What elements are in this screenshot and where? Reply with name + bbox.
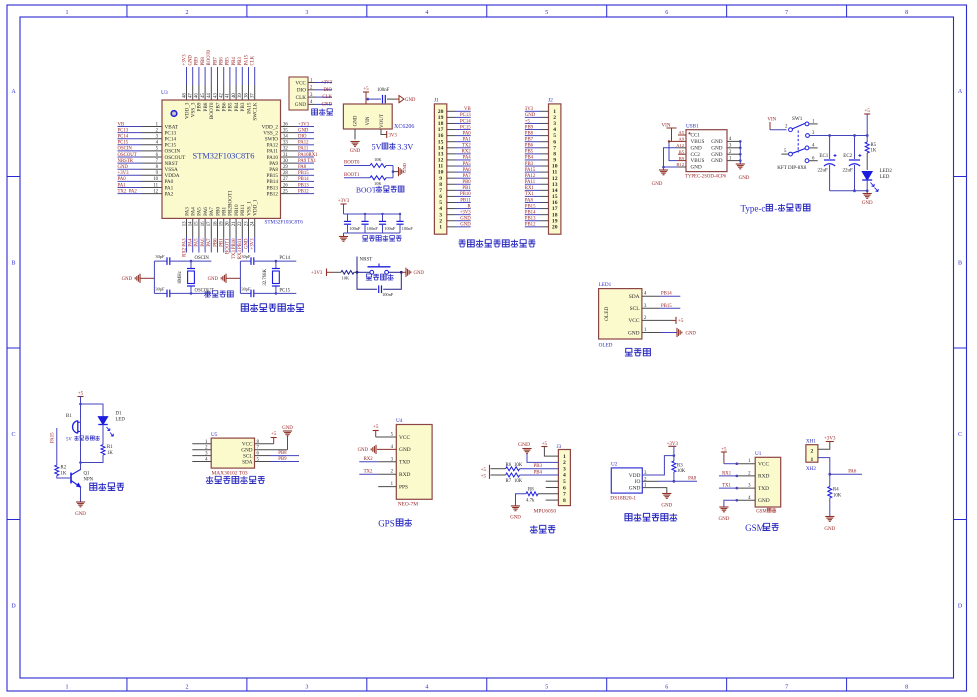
svg-text:GND: GND [75,512,86,517]
caption display [625,348,633,356]
svg-text:5: 5 [545,10,548,16]
svg-text:8: 8 [563,498,566,504]
svg-text:GND: GND [686,331,697,336]
svg-text:Type-c: Type-c [741,204,766,214]
svg-text:Q1: Q1 [84,472,90,477]
svg-text:TX3 PB10: TX3 PB10 [232,238,237,259]
svg-text:PB15: PB15 [525,204,536,209]
svg-text:PB13: PB13 [266,185,278,191]
caption crystal circuit [204,291,210,298]
svg-text:PB6: PB6 [222,102,228,111]
svg-text:VIN: VIN [767,118,776,123]
svg-text:PB0: PB0 [215,207,221,216]
mcu pin 44 BOOT0 wire/net BOOT0 [210,67,212,85]
gnd of power circuit [866,191,868,193]
resistor R4 10K [829,474,831,486]
svg-text:GND: GND [691,165,702,171]
mcu U3 body [162,100,281,218]
svg-text:SWIO: SWIO [265,137,279,143]
gsm gnd [724,500,737,507]
svg-text:GND: GND [525,113,536,118]
svg-text:10K: 10K [514,479,523,484]
svg-text:VCC: VCC [628,318,639,324]
svg-text:7: 7 [563,492,566,498]
mcu pin 35 VSS_2 wire/net GND [281,132,299,134]
gsm U1 body [755,457,781,507]
svg-text:SDA: SDA [242,459,253,465]
svg-text:1: 1 [66,685,69,691]
svg-text:DIO: DIO [323,88,332,93]
svg-text:33: 33 [283,141,288,146]
svg-text:10K: 10K [374,157,382,162]
svg-text:CC1: CC1 [691,133,701,139]
svg-text:PC15: PC15 [279,288,290,293]
sensor left pin 4 [192,461,211,463]
svg-text:BOOT0: BOOT0 [209,102,215,119]
svg-text:R7: R7 [506,479,512,484]
svg-text:NPN: NPN [84,478,94,483]
svg-text:100nF: 100nF [382,292,394,297]
mcu pin 39 PB3 wire/net PB3 [241,67,243,85]
svg-text:PB1: PB1 [462,186,471,191]
svg-text:PB6: PB6 [525,144,534,149]
sensor left pin 1 [192,443,211,445]
svg-text:VSS_3: VSS_3 [191,102,197,117]
node under 3v3 [673,454,676,457]
svg-text:4: 4 [563,473,566,479]
svg-text:PC14: PC14 [118,135,129,140]
svg-text:-: - [774,204,777,214]
svg-text:3V3: 3V3 [525,107,534,112]
svg-text:R1: R1 [107,445,113,450]
svg-text:PC14: PC14 [460,119,471,124]
mcu pin 32 PA11 wire/net PA11 [281,150,299,152]
svg-text:PC15: PC15 [460,125,471,130]
svg-text:+3V3: +3V3 [460,210,472,215]
svg-text:D: D [958,604,963,610]
svg-text:47: 47 [189,93,194,98]
svg-text:D1: D1 [116,412,122,417]
svg-text:VOUT: VOUT [380,114,385,128]
svg-text:DIO: DIO [297,88,306,94]
svg-text:VIN: VIN [366,116,371,125]
gps RXD net TX2 [378,473,396,475]
svg-text:CLK: CLK [251,55,256,65]
capacitor 30pF bottom [240,292,251,294]
svg-text:7: 7 [785,10,788,16]
regulator U6 XC6206 body [343,104,392,129]
svg-text:OSCOUT: OSCOUT [118,153,137,158]
svg-text:EC1: EC1 [819,154,828,159]
svg-text:PB15: PB15 [266,173,278,179]
svg-text:PB13: PB13 [525,217,536,222]
svg-text:45: 45 [201,93,206,98]
svg-text:PB1: PB1 [220,238,225,247]
svg-text:VCC: VCC [399,435,410,441]
svg-text:GND: GND [652,182,663,187]
svg-text:39: 39 [238,93,243,98]
svg-text:GND: GND [405,98,416,103]
svg-text:8MHz: 8MHz [178,271,183,283]
svg-text:30pF: 30pF [241,254,251,259]
svg-text:30pF: 30pF [241,287,251,292]
svg-text:36: 36 [283,122,288,127]
svg-text:C: C [958,432,962,438]
svg-text:PA12: PA12 [525,174,536,179]
mcu pin 7 NRST wire/net NRSTR [118,162,142,164]
usb gnd jumper wire [664,148,679,167]
svg-text:PA9 TX1: PA9 TX1 [298,159,317,164]
svg-text:DS18B20-1: DS18B20-1 [610,496,636,502]
svg-text:PB14: PB14 [525,210,536,215]
svg-text:PA5: PA5 [463,162,472,167]
mcu pin 2 PC13 wire/net PC13 [118,132,142,134]
caption temperature module [625,514,632,521]
svg-text:GND: GND [758,498,770,504]
svg-text:10K: 10K [342,276,350,281]
svg-text:+3V3: +3V3 [311,271,323,276]
temp GND wire [642,488,667,494]
svg-text:GND: GND [460,223,471,228]
mcu pin 29 PA8 wire/net PA8 [281,168,299,170]
svg-text:GND: GND [510,516,521,521]
svg-text:PB11: PB11 [240,204,246,216]
svg-text:SDA: SDA [629,294,640,300]
svg-text:TXD: TXD [758,486,769,492]
capacitor 30pF top [240,260,251,262]
svg-text:PB5: PB5 [525,150,534,155]
mcu pin 23 VSS_1 wire/net GND [248,218,250,237]
capacitor EC2 22uF [854,136,856,160]
mcu pin 36 VDD_2 wire/net +3V3 [281,126,299,128]
svg-text:10K: 10K [677,469,686,474]
svg-text:PB10: PB10 [460,192,471,197]
svg-text:EC2: EC2 [843,154,852,159]
mcu pin 14 PA4 wire/net PA4 [192,218,194,237]
svg-text:PB15: PB15 [298,171,309,176]
svg-text:PB3: PB3 [534,464,543,469]
svg-text:PB8: PB8 [525,131,534,136]
svg-text:GSM: GSM [745,523,765,533]
svg-text:J3: J3 [557,444,562,450]
svg-text:PB3: PB3 [525,162,534,167]
svg-text:30pF: 30pF [155,287,165,292]
svg-text:5V: 5V [66,438,72,443]
svg-text:27: 27 [283,177,288,182]
svg-text:VDD: VDD [629,473,641,479]
svg-text:TYPEC-2SOD-4CP6: TYPEC-2SOD-4CP6 [685,175,727,180]
svg-text:21: 21 [232,221,237,226]
svg-text:PC14: PC14 [165,137,177,143]
gyro pin6 stub [546,487,559,489]
svg-text:3V3: 3V3 [389,134,398,139]
svg-text:R4: R4 [833,488,839,493]
mcu pin 40 PB4 wire/net PB4 [235,67,237,85]
svg-text:GND: GND [298,128,309,133]
svg-text:PA4: PA4 [463,156,472,161]
caption chip filter caps [362,235,368,241]
svg-text:LED1: LED1 [599,282,612,288]
svg-text:PA8: PA8 [298,165,307,170]
svg-text:VBUS: VBUS [691,158,705,164]
capacitor C5 100nF [399,214,401,221]
svg-text:IO: IO [635,479,641,485]
sensor left pin 2 [192,449,211,451]
svg-text:GND: GND [518,442,530,448]
gnd right of reset [401,271,405,273]
gyro pin8 stub [546,499,559,501]
xh pin1 wire to node [818,458,830,475]
svg-text:OLED: OLED [599,343,613,349]
svg-text:PB7: PB7 [215,102,221,111]
mcu pin 4 PC15 wire/net PC15 [118,144,142,146]
sensor GND wire [255,449,288,451]
mcu pin 6 OSCOUT wire/net OSCOUT [118,156,142,158]
svg-text:38: 38 [244,93,249,98]
svg-text:NRST: NRST [165,161,179,167]
svg-text:3.3V: 3.3V [397,143,413,152]
mcu pin 15 PA5 wire/net PA5 [198,218,200,237]
mcu pin 22 PB11 wire/net RX3&#160;PB11 [241,218,243,237]
svg-text:KFT DIP-8X8: KFT DIP-8X8 [777,166,807,171]
svg-text:PPS: PPS [399,484,408,490]
caption download port [312,109,318,115]
svg-text:PA15: PA15 [51,432,56,443]
sensor U5 MAX30102 body [211,438,254,468]
svg-text:6: 6 [563,485,566,491]
svg-text:A12: A12 [676,143,685,148]
svg-text:GND: GND [862,201,873,206]
svg-text:5: 5 [545,685,548,691]
mcu pin 3 PC14 wire/net PC14 [118,138,142,140]
svg-text:PC14: PC14 [279,256,290,261]
svg-text:PA10: PA10 [267,155,279,161]
svg-text:B1: B1 [66,414,72,419]
svg-text:GND: GND [460,217,471,222]
svg-text:USB1: USB1 [686,124,699,130]
svg-text:GND: GND [402,162,407,173]
svg-text:U3: U3 [161,90,168,96]
svg-text:R2: R2 [61,466,67,471]
crystal net OSCOUT [190,292,193,295]
svg-text:XH1: XH1 [806,439,816,445]
svg-text:B: B [958,261,962,267]
svg-text:4: 4 [425,685,428,691]
svg-text:6: 6 [665,10,668,16]
regulator GND pin to ground [354,129,356,140]
gnd of crystal [225,274,227,283]
svg-text:PB10: PB10 [234,204,240,216]
mcu U3 pin1 marker [171,111,177,117]
mcu pin 19 PB1 wire/net PB1 [223,218,225,237]
svg-text:GND: GND [691,145,702,151]
svg-text:4: 4 [425,10,428,16]
svg-text:PB4: PB4 [534,470,543,475]
mcu pin 5 OSCIN wire/net OSCIN [118,150,142,152]
svg-text:PB4: PB4 [234,102,240,111]
mcu pin 18 PB0 wire/net PB0 [217,218,219,237]
svg-text:PA6: PA6 [848,470,857,475]
svg-text:GPS: GPS [378,519,395,529]
svg-text:PB9: PB9 [197,102,203,111]
svg-text:PB14: PB14 [266,179,278,185]
mcu pin 48 VDD_3 wire/net +3V3 [186,67,188,85]
svg-text:OSCOUT: OSCOUT [195,288,214,293]
svg-text:GND: GND [322,102,333,107]
svg-text:XC6206: XC6206 [394,124,414,130]
svg-text:RXD: RXD [399,472,410,478]
svg-text:PB3: PB3 [238,57,243,66]
svg-text:2: 2 [185,10,188,16]
gps U4 body [396,425,432,500]
caption sound light alarm [90,483,97,490]
svg-text:U1: U1 [755,451,762,457]
svg-text:XH2: XH2 [806,466,816,472]
mcu pin 30 PA9 wire/net PA9&#160;TX1 [281,162,299,164]
svg-text:U4: U4 [396,418,403,424]
reset button S1 [357,271,370,273]
mcu pin 33 PA12 wire/net PA12 [281,144,299,146]
svg-text:100nF: 100nF [384,226,396,231]
svg-text:1: 1 [811,457,814,463]
svg-text:VDDA: VDDA [165,173,180,179]
svg-text:20: 20 [552,224,558,230]
crystal cap rail [239,261,241,293]
svg-text:PA15: PA15 [525,168,536,173]
svg-text:34: 34 [283,135,288,140]
mcu pin 16 PA6 wire/net PA6 [204,218,206,237]
transistor Q1 NPN [80,463,82,471]
svg-text:R8: R8 [528,487,534,492]
led LED2 [862,172,872,181]
svg-text:PC13: PC13 [118,128,129,133]
svg-text:100nF: 100nF [367,226,379,231]
svg-text:29: 29 [283,165,288,170]
crystal net OSCIN [190,260,193,263]
sensor SDA net PB9 [255,461,271,463]
svg-text:GND: GND [711,158,722,164]
svg-text:PA4: PA4 [191,207,197,216]
svg-text:+5: +5 [373,425,379,430]
mcu pin 12 PA2 wire/net TX2&#160;&#160;PA2 [118,193,142,195]
svg-text:22: 22 [238,221,243,226]
svg-text:TXD: TXD [399,460,410,466]
switch stubs [809,123,818,125]
svg-text:OSCIN: OSCIN [195,256,210,261]
svg-text:BOOT0: BOOT0 [207,49,212,65]
svg-text:10: 10 [153,177,158,182]
capacitor 100nF at regulator [366,98,381,100]
svg-text:PB12: PB12 [298,189,309,194]
svg-text:37: 37 [251,93,256,98]
svg-text:1K: 1K [107,451,113,456]
svg-text:R6: R6 [506,463,512,468]
svg-text:PB11: PB11 [460,198,471,203]
temp U2 body [611,468,642,493]
svg-text:VBAT: VBAT [165,124,179,130]
svg-text:+3V3: +3V3 [182,54,187,66]
svg-text:1K: 1K [871,149,877,154]
gnd of crystal [139,274,141,283]
svg-text:PB4: PB4 [232,57,237,66]
svg-text:PB15: PB15 [661,304,672,309]
svg-text:GND: GND [354,115,359,126]
svg-text:PA8: PA8 [269,167,278,173]
svg-text:19: 19 [220,221,225,226]
mcu pin 17 PA7 wire/net PA7 [210,218,212,237]
svg-text:26: 26 [283,183,288,188]
mcu pin 1 VBAT wire/net VB [118,126,142,128]
svg-text:PB6: PB6 [220,57,225,66]
svg-text:14: 14 [189,221,194,226]
svg-text:48: 48 [182,93,187,98]
svg-text:PB4: PB4 [525,156,534,161]
svg-text:VB: VB [118,122,125,127]
svg-text:PA2: PA2 [165,191,174,197]
svg-text:GND: GND [399,447,411,453]
usb left gnd symbol [659,169,668,171]
caption gyroscope [530,525,538,533]
svg-text:13: 13 [182,221,187,226]
mcu pin 13 PA3 wire/net RX2&#160;PA3 [186,218,188,237]
svg-text:GND: GND [711,139,722,145]
svg-text:10K: 10K [514,463,523,468]
node at regulator VIN [367,98,370,101]
svg-text:GND: GND [739,176,750,181]
svg-text:TX1: TX1 [525,192,534,197]
svg-text:PA0: PA0 [165,179,174,185]
svg-text:TX2: TX2 [364,470,373,475]
svg-text:PB13: PB13 [298,183,309,188]
svg-text:12: 12 [153,189,158,194]
mcu pin 43 PB7 wire/net PB7 [217,67,219,85]
svg-text:40: 40 [232,93,237,98]
svg-text:100nF: 100nF [377,88,390,93]
resistor R3 10K [673,456,675,461]
svg-text:GND: GND [718,517,729,522]
svg-text:RXD: RXD [758,474,769,480]
gnd arrow right of 100nF [396,98,399,100]
svg-text:VSS_2: VSS_2 [263,130,278,136]
svg-text:2: 2 [185,685,188,691]
svg-text:+5: +5 [481,468,487,473]
svg-text:46: 46 [195,93,200,98]
gyro pin7 R8 to gnd [538,493,558,495]
xh pin2 to +3V3 [818,442,830,450]
svg-text:25: 25 [283,189,288,194]
svg-text:CLK: CLK [322,95,332,100]
header J2 body [549,104,561,234]
svg-text:MAX30102 T03: MAX30102 T03 [212,471,248,477]
svg-text:PB2BOOT1: PB2BOOT1 [228,190,234,216]
svg-text:PA15: PA15 [246,102,252,114]
svg-text:PA8: PA8 [525,198,534,203]
svg-text:5: 5 [563,479,566,485]
svg-text:16: 16 [201,221,206,226]
svg-text:PA8: PA8 [688,477,697,482]
svg-text:PB0: PB0 [213,238,218,247]
svg-text:VDD_3: VDD_3 [184,102,190,119]
net NRST wire up [356,257,358,273]
svg-text:CLK: CLK [296,95,307,101]
svg-text:RX2 PA3: RX2 PA3 [182,238,187,257]
svg-text:20: 20 [226,221,231,226]
svg-text:PB7: PB7 [525,138,534,143]
svg-text:8: 8 [905,10,908,16]
svg-text:GND: GND [661,504,672,509]
filter caps top rail [344,213,401,215]
svg-text:GND: GND [208,277,219,282]
